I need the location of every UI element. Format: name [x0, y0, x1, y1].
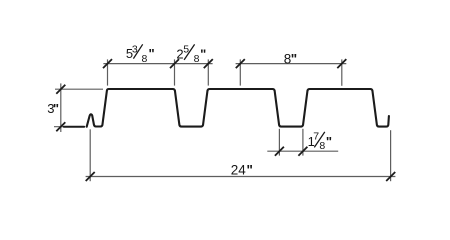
svg-text:": " [326, 134, 332, 149]
svg-text:8: 8 [142, 53, 148, 65]
svg-text:": " [53, 101, 59, 116]
svg-text:8: 8 [194, 53, 200, 65]
svg-text:3: 3 [132, 44, 138, 56]
svg-text:": " [247, 162, 253, 177]
svg-text:7: 7 [313, 130, 319, 142]
svg-text:": " [291, 52, 297, 67]
svg-text:24: 24 [231, 162, 247, 177]
svg-text:": " [149, 46, 155, 61]
svg-text:5: 5 [183, 43, 189, 55]
svg-text:": " [200, 47, 206, 62]
svg-text:8: 8 [319, 140, 325, 152]
